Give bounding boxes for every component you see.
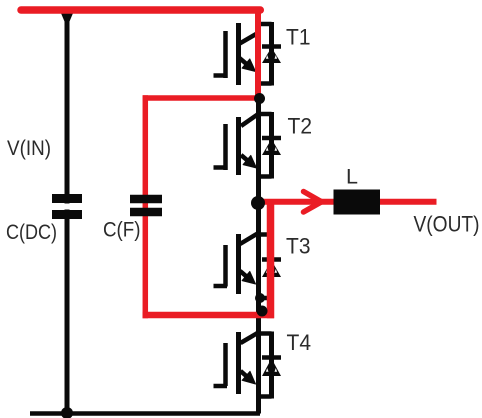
svg-text:V(IN): V(IN) (7, 136, 51, 160)
svg-text:T2: T2 (288, 114, 313, 139)
svg-text:T1: T1 (286, 25, 311, 50)
svg-text:C(F): C(F) (103, 218, 141, 242)
svg-text:T3: T3 (286, 234, 311, 259)
svg-text:T4: T4 (287, 330, 312, 355)
svg-text:C(DC): C(DC) (6, 220, 57, 244)
svg-text:L: L (346, 165, 358, 189)
svg-text:V(OUT): V(OUT) (414, 212, 480, 237)
